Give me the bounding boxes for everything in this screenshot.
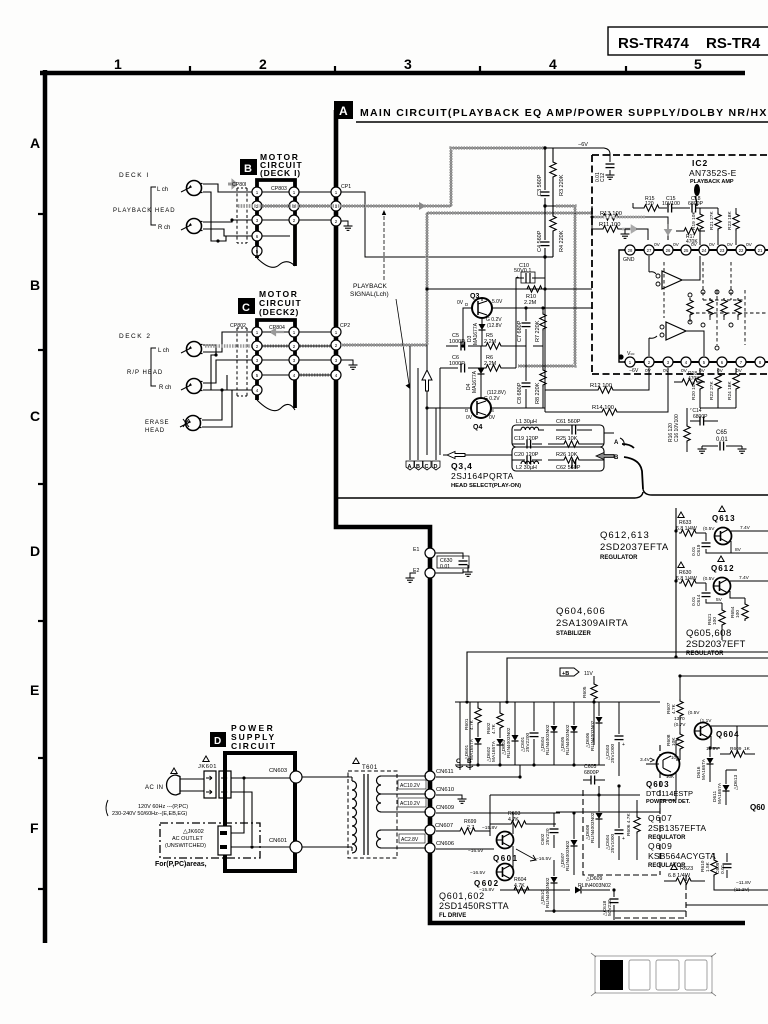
erase head (deck2) (145, 416, 202, 435)
capacitor C6 (449, 355, 465, 373)
svg-text:ERASE: ERASE (145, 420, 169, 426)
svg-text:(DECK I): (DECK I) (260, 168, 301, 178)
svg-text:R606 4.7K: R606 4.7K (626, 813, 632, 836)
E1 E2 connector with C630 (406, 547, 473, 582)
svg-text:A: A (408, 464, 412, 470)
capacitor C3 (537, 148, 550, 206)
svg-text:24: 24 (702, 248, 707, 253)
Q612,613 regulator label (600, 530, 669, 561)
inductor L1 (514, 419, 544, 430)
regulator rail lines (467, 652, 768, 700)
C8/R8 row ties (427, 346, 545, 408)
svg-text:L ch: L ch (158, 348, 169, 354)
svg-text:0V: 0V (727, 242, 734, 248)
diode D605 (560, 702, 578, 765)
svg-text:+: + (622, 742, 625, 748)
svg-text:C61 560P: C61 560P (556, 419, 581, 425)
-6V net label (556, 142, 610, 154)
svg-text:R25 10K: R25 10K (556, 436, 578, 442)
svg-text:JK601: JK601 (198, 764, 217, 770)
resistor R11 (592, 222, 648, 240)
svg-text:1000P: 1000P (449, 361, 465, 367)
capacitor C601 (520, 702, 539, 765)
power supply thick box (225, 753, 295, 871)
svg-text:CN603: CN603 (269, 768, 287, 774)
Q3,4 head select label (451, 461, 521, 489)
Q609 regulator label (648, 841, 716, 869)
resistor R606 (626, 800, 640, 860)
svg-text:E: E (30, 682, 39, 698)
svg-text:FL DRIVE: FL DRIVE (439, 913, 466, 919)
capacitor C14 6800P (690, 408, 718, 426)
capacitor C605 (583, 764, 605, 785)
resistor R607 (666, 695, 683, 718)
svg-text:1: 1 (114, 56, 122, 72)
svg-text:L ch: L ch (157, 187, 168, 193)
diode D601 (464, 725, 482, 765)
internal contact circles (688, 290, 733, 350)
connector CP801 (dashed) (232, 182, 247, 243)
svg-text:A: A (30, 135, 40, 151)
resistor R8 (535, 346, 546, 408)
resistor R26 (548, 452, 604, 463)
svg-text:R21 27K: R21 27K (709, 211, 715, 230)
IC2 internal box (619, 250, 629, 362)
diode D616 (696, 748, 714, 782)
AC IN plug (145, 768, 204, 795)
svg-text:R16 120: R16 120 (668, 423, 674, 442)
svg-text:B: B (614, 455, 619, 461)
pin5 stub (256, 243, 258, 258)
cluster mid rail (455, 764, 605, 766)
svg-text:2.2M: 2.2M (484, 361, 497, 367)
svg-text:KSB564ACYGTA: KSB564ACYGTA (648, 851, 716, 861)
capacitor C61 (556, 419, 592, 435)
svg-text:S: S (491, 408, 494, 413)
transistor Q4 (465, 398, 496, 431)
svg-text:470K: 470K (686, 239, 698, 245)
gray path to Q3 source (518, 206, 575, 366)
0V labels bottom row (645, 368, 743, 374)
svg-text:(1.1V: (1.1V (700, 718, 712, 724)
node C flag (423, 461, 431, 470)
svg-text:A: A (614, 440, 619, 446)
resistor R601 (464, 702, 481, 730)
motor circuit B thick border (257, 180, 295, 266)
svg-text:5V: 5V (716, 597, 723, 603)
CN609 row wire (436, 812, 560, 814)
svg-text:0.01: 0.01 (716, 437, 728, 443)
svg-text:11V: 11V (584, 671, 593, 677)
capacitor C65 (698, 430, 747, 453)
deck1 label bracket (151, 187, 156, 225)
svg-text:R23 18K: R23 18K (727, 211, 733, 230)
svg-text:0V: 0V (736, 368, 743, 374)
capacitor C62 (556, 460, 581, 472)
svg-text:△D613: △D613 (733, 775, 739, 790)
voltage labels Q609 area (734, 880, 752, 893)
svg-text:AC10.2V: AC10.2V (400, 783, 421, 789)
capacitor C18 6800P (688, 184, 718, 213)
svg-text:R3 220K: R3 220K (559, 174, 565, 196)
svg-text:F: F (30, 820, 39, 836)
svg-text:RLIN4003N02: RLIN4003N02 (578, 883, 611, 889)
svg-text:50V220: 50V220 (607, 899, 613, 916)
svg-text:0.01: 0.01 (691, 546, 697, 556)
wire upper right entries (680, 676, 768, 770)
svg-text:R20 10K: R20 10K (691, 381, 697, 400)
svg-text:AC10.2V: AC10.2V (400, 801, 421, 807)
resistor R609 (720, 746, 755, 757)
svg-text:RLIN4003N02: RLIN4003N02 (590, 812, 596, 843)
IC2 top pin row (624, 249, 768, 251)
svg-text:R19 10K: R19 10K (691, 211, 697, 230)
capacitor C618 (602, 890, 619, 920)
svg-text:7.4V: 7.4V (739, 575, 750, 581)
resistor R21 27K (709, 208, 721, 245)
svg-text:28: 28 (628, 248, 633, 253)
head select row with white arrow (443, 452, 512, 459)
svg-text:−6V: −6V (629, 368, 639, 374)
svg-text:MA1677A: MA1677A (472, 370, 478, 393)
svg-text:Q3: Q3 (470, 293, 479, 300)
svg-text:C: C (425, 464, 429, 470)
motor circuit B torn edge (257, 258, 295, 267)
svg-text:Q607: Q607 (648, 813, 673, 823)
svg-text:RS-TR474: RS-TR474 (618, 35, 690, 52)
svg-text:10K: 10K (666, 774, 674, 779)
head select box 2 (512, 447, 604, 471)
svg-text:RLIN4003N02: RLIN4003N02 (590, 720, 596, 751)
node A flag right (604, 433, 624, 446)
CN603 connector (269, 768, 302, 783)
svg-text:C16 10V100: C16 10V100 (674, 414, 680, 442)
svg-text:AC IN: AC IN (145, 785, 164, 791)
svg-text:Q602: Q602 (474, 879, 500, 888)
svg-text:50V0.1: 50V0.1 (514, 268, 531, 274)
svg-text:AC OUTLET: AC OUTLET (172, 836, 204, 842)
svg-text:3: 3 (404, 56, 412, 72)
CN609 connector (425, 805, 454, 817)
svg-text:CN610: CN610 (436, 787, 454, 793)
svg-text:GND: GND (623, 257, 635, 263)
diode D607 (560, 813, 578, 875)
capacitor C7 (517, 308, 531, 346)
resistor R13 (592, 211, 671, 240)
resistor R604 (500, 877, 545, 893)
capacitor C602 (540, 813, 559, 848)
svg-text:(UNSWITCHED): (UNSWITCHED) (165, 843, 206, 849)
resistor R12 (545, 368, 649, 393)
svg-text:7.4V: 7.4V (740, 525, 751, 531)
svg-text:REGULATOR: REGULATOR (686, 651, 724, 657)
outlet socket (218, 826, 231, 855)
CN601 connector (269, 838, 302, 853)
svg-text:R12 100: R12 100 (590, 383, 612, 389)
transistor Q613 (712, 506, 768, 553)
svg-text:D: D (434, 464, 438, 470)
C3/R3 ties (545, 148, 553, 206)
svg-text:0V: 0V (673, 242, 680, 248)
svg-text:4: 4 (549, 56, 557, 72)
svg-text:0.01: 0.01 (595, 172, 601, 182)
svg-text:4.7K: 4.7K (671, 703, 677, 714)
IC2 chain-line border (592, 155, 768, 374)
resistor R654 (730, 598, 748, 621)
resistor R18 470K (674, 371, 705, 385)
svg-text:R26 10K: R26 10K (556, 452, 578, 458)
svg-text:RLIN4003N02: RLIN4003N02 (506, 727, 512, 758)
transformer T601 (302, 758, 426, 858)
CN611 connector (425, 769, 454, 781)
svg-text:PLAYBACK HEAD: PLAYBACK HEAD (113, 208, 176, 214)
resistor R605 (582, 676, 597, 745)
svg-text:R7 220K: R7 220K (535, 320, 541, 342)
svg-text:1.5K: 1.5K (705, 861, 711, 872)
CN606 connector (425, 841, 454, 853)
psu-to-CN wires (424, 848, 426, 850)
svg-text:C: C (242, 302, 250, 314)
svg-text:DTC114ESTP: DTC114ESTP (646, 789, 693, 798)
svg-text:(0.5V: (0.5V (688, 710, 700, 716)
svg-text:6800P: 6800P (584, 770, 600, 776)
A/B exit line (622, 444, 643, 489)
transistor Q601 (468, 812, 552, 872)
riser x516 (515, 289, 517, 368)
dashed group boundary (583, 745, 686, 918)
connector CP2 (331, 323, 350, 380)
MOTOR CIRCUIT (DECK 1) label (260, 152, 303, 178)
resistor R4 (550, 206, 565, 257)
pins 1-8 (625, 357, 765, 367)
svg-text:A: A (339, 104, 348, 118)
svg-text:CP2: CP2 (340, 323, 350, 329)
op-amp U1b (649, 322, 704, 356)
CP2 pin3 ground (341, 360, 358, 369)
R13/R11 feed (591, 206, 593, 229)
AC10.2V labels (398, 780, 426, 843)
svg-text:0V: 0V (466, 415, 473, 421)
svg-text:2SJ164PQRTA: 2SJ164PQRTA (451, 471, 514, 481)
gray playback path deck2 riser (341, 213, 592, 455)
svg-text:MA165TA: MA165TA (491, 740, 497, 762)
rows between connector columns deck2 (262, 332, 331, 375)
svg-text:2SB1357EFTA: 2SB1357EFTA (648, 823, 706, 833)
top ruler line (40, 71, 745, 76)
svg-text:0V: 0V (681, 368, 688, 374)
section label B (240, 159, 257, 175)
svg-text:R623: R623 (680, 866, 693, 872)
deck1 head wires (203, 184, 253, 241)
capacitor C5 (449, 333, 465, 351)
svg-text:Q3,4: Q3,4 (451, 461, 473, 471)
svg-text:−11.8V: −11.8V (736, 880, 752, 886)
Q601,602 FL drive label (439, 891, 509, 919)
svg-text:CP804: CP804 (269, 325, 285, 331)
svg-text:0.01: 0.01 (720, 864, 726, 874)
playback head R ch (deck1) (158, 219, 203, 234)
svg-text:△JK602: △JK602 (183, 829, 204, 835)
inductor L2 (516, 461, 539, 471)
svg-text:2SD1450RSTTA: 2SD1450RSTTA (439, 901, 509, 911)
svg-text:−16.5V: −16.5V (468, 848, 484, 854)
Q4 leads (427, 407, 545, 409)
svg-text:26: 26 (666, 248, 671, 253)
row C5/R5 (446, 345, 516, 347)
deck2 label bracket (151, 348, 156, 386)
svg-text:(12.8V: (12.8V (487, 323, 502, 329)
transistor Q3 (457, 293, 503, 329)
CP803 pins col1 (252, 187, 262, 256)
resistor R24 18K (727, 368, 739, 408)
resistor R3 (550, 148, 565, 206)
svg-text:2.2M: 2.2M (484, 339, 497, 345)
transistor Q602 (470, 864, 514, 894)
resistor R17 470K (676, 228, 705, 245)
diode D602 (486, 730, 504, 765)
svg-text:1000P: 1000P (449, 339, 465, 345)
diode D4 (466, 346, 506, 402)
IC2 internal dashed network (664, 262, 768, 345)
capacitor C12 (595, 154, 615, 182)
gray signal row deck1 pin2 (238, 204, 331, 207)
motor circuit C torn edge (257, 400, 295, 411)
svg-text:2: 2 (259, 56, 267, 72)
C7/R7 ties (526, 307, 543, 309)
svg-text:R22 27K: R22 27K (709, 381, 715, 400)
svg-text:22: 22 (739, 248, 744, 253)
svg-text:8V: 8V (735, 547, 742, 553)
svg-text:0V: 0V (457, 300, 464, 306)
gray signal row deck2 pin4 (295, 373, 331, 376)
svg-text:AC2.8V: AC2.8V (401, 837, 419, 843)
CN610 ground (436, 795, 467, 803)
line from main to regulators (338, 489, 768, 498)
CN607 connector (425, 823, 453, 835)
resistor R23 18K (727, 208, 739, 245)
motor circuit C thick border (257, 320, 295, 408)
diode D604 (540, 702, 558, 765)
CP1 pin2 ground (341, 221, 353, 230)
node B flag right with gray arrow (596, 453, 619, 462)
svg-text:CN606: CN606 (436, 841, 454, 847)
internal resistors (687, 298, 741, 322)
svg-text:10K: 10K (671, 737, 677, 746)
resistor R623 (664, 864, 705, 884)
rows between connector columns deck1 (262, 192, 331, 236)
CN610 connector (425, 787, 454, 799)
R/P head L ch (deck2) (158, 342, 203, 357)
resistor R6 (484, 355, 503, 371)
capacitor C15 (662, 196, 690, 213)
capacitor C8 (517, 346, 531, 408)
bottom rails (514, 889, 556, 891)
svg-text:4.7K: 4.7K (491, 723, 497, 734)
svg-text:+: + (622, 836, 625, 842)
svg-text:RS-TR4: RS-TR4 (706, 35, 761, 52)
right side wires (686, 726, 768, 905)
psu wires (231, 778, 290, 847)
svg-text:C7 680P: C7 680P (517, 320, 523, 342)
svg-text:HEAD: HEAD (145, 428, 165, 434)
svg-text:RLIN4003N02: RLIN4003N02 (545, 724, 551, 755)
svg-text:CIRCUIT: CIRCUIT (231, 741, 277, 751)
svg-text:25: 25 (684, 248, 689, 253)
resistor R603 (490, 811, 556, 827)
R/P head R ch (deck2) (159, 379, 203, 394)
svg-text:Q601: Q601 (493, 854, 519, 863)
svg-text:Q612: Q612 (711, 564, 735, 573)
svg-text:25V1000: 25V1000 (610, 743, 616, 763)
svg-text:Q604,606: Q604,606 (556, 606, 606, 617)
Q607 regulator label (648, 813, 706, 841)
svg-text:120V 60Hz ---(P,PC): 120V 60Hz ---(P,PC) (138, 804, 188, 810)
svg-text:R ch: R ch (159, 385, 171, 391)
svg-text:C8 680P: C8 680P (517, 382, 523, 404)
svg-text:C62 560P: C62 560P (556, 465, 581, 471)
diode D610 (540, 860, 558, 913)
svg-text:2SD2037EFTA: 2SD2037EFTA (600, 542, 669, 553)
svg-text:STABILIZER: STABILIZER (556, 631, 592, 637)
CN606 row wire (436, 848, 494, 850)
svg-text:R24 18K: R24 18K (727, 381, 733, 400)
svg-text:0.01: 0.01 (691, 596, 697, 606)
op-amp U1a (649, 256, 700, 289)
svg-text:R4 220K: R4 220K (559, 230, 565, 252)
cluster lower rails (490, 794, 640, 796)
svg-text:25V2200: 25V2200 (525, 732, 531, 752)
PLAYBACK SIGNAL(Lch) label (350, 210, 410, 389)
mains voltage label (106, 800, 226, 817)
svg-text:0V: 0V (654, 242, 661, 248)
svg-text:△D609: △D609 (586, 876, 603, 882)
svg-text:(0.5V: (0.5V (703, 576, 715, 582)
Q604,606 stabilizer label (556, 606, 628, 637)
svg-text:1K: 1K (744, 746, 751, 752)
capacitor C4 (537, 206, 550, 257)
section label C (238, 298, 255, 314)
C4/R4 tie (545, 256, 553, 258)
svg-text:RLIN4003N02: RLIN4003N02 (565, 840, 571, 871)
transistor Q603 (digital) (640, 740, 693, 805)
svg-text:R ch: R ch (158, 225, 170, 231)
resistor R14 (545, 368, 668, 415)
resistor R633 (676, 512, 715, 536)
svg-text:RLIN4003N02: RLIN4003N02 (565, 724, 571, 755)
diode D609 (556, 876, 611, 894)
diode D611 (712, 770, 730, 805)
POWER SUPPLY CIRCUIT label (231, 723, 277, 751)
main block thick border (336, 110, 745, 923)
junction deck1 (216, 239, 219, 242)
svg-text:+: + (516, 275, 519, 281)
resistor R19 10K (691, 208, 703, 245)
svg-text:−16.5V: −16.5V (536, 856, 552, 862)
svg-text:25V220: 25V220 (545, 828, 551, 845)
connector CP1 (331, 184, 351, 226)
row C6/R6 (440, 367, 516, 369)
section label A (MAIN CIRCUIT) (334, 101, 768, 122)
svg-text:100: 100 (712, 617, 718, 625)
svg-text:Q612,613: Q612,613 (600, 530, 650, 541)
svg-text:100: 100 (735, 610, 741, 618)
svg-text:R8 220K: R8 220K (535, 382, 541, 404)
svg-text:C65: C65 (716, 430, 728, 436)
playback head L ch (deck1) (157, 181, 203, 196)
svg-text:PLAYBACK: PLAYBACK (353, 283, 388, 290)
row y289 (427, 288, 592, 290)
svg-text:CP803: CP803 (271, 186, 287, 192)
